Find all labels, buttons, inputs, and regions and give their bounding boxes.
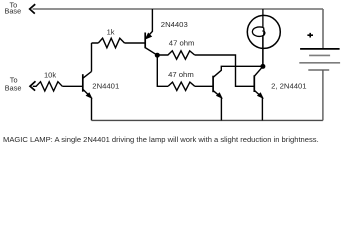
resistor R1 10k zigzag — [33, 82, 63, 91]
svg-text:1k: 1k — [107, 27, 115, 36]
svg-text:47 ohm: 47 ohm — [169, 39, 195, 48]
label To Base (top input) — [5, 1, 22, 16]
lamp DS1 bottom wire to node B — [262, 36, 264, 67]
svg-text:Base: Base — [5, 84, 22, 93]
lamp DS1 filament loop — [252, 27, 264, 36]
wire Q2 emitter to ground rail — [220, 97, 222, 120]
transistor Q1 2N4401 bar — [82, 74, 84, 92]
transistor Q2 collector wire up to node B — [213, 66, 263, 77]
wire R3 to Q3 base — [195, 55, 255, 86]
wire bottom rail — [92, 119, 323, 121]
node B junction dot — [260, 64, 265, 69]
transistor Q2 2N4401 bar — [212, 76, 214, 93]
svg-text:2N4401: 2N4401 — [92, 81, 119, 90]
transistor U1 2N4403 bar — [144, 33, 146, 49]
transistor U1 2N4403 emitter wire — [146, 9, 152, 38]
node A junction dot — [155, 53, 160, 58]
battery BT1 plate 3 (long) — [299, 62, 340, 64]
resistor R3 47 ohm upper zigzag — [157, 51, 194, 59]
lamp DS1 top wire — [263, 9, 264, 66]
transistor Q2 emitter diagonal with arrowhead — [213, 91, 221, 98]
battery BT1 plate 1 (long, positive) — [300, 48, 340, 50]
svg-text:2, 2N4401: 2, 2N4401 — [271, 81, 306, 90]
transistor Q3 emitter diagonal with arrowhead — [255, 91, 263, 98]
svg-text:2N4403: 2N4403 — [161, 20, 188, 29]
wire battery top vertical — [322, 9, 324, 49]
battery BT1 plus sign — [307, 33, 313, 38]
transistor U1 2N4403 emitter arrowhead — [146, 33, 152, 39]
wire Q3 emitter to ground rail — [261, 97, 263, 120]
resistor R4 47 ohm lower zigzag — [168, 82, 195, 90]
battery BT1 plate 2 (short) — [309, 54, 330, 56]
wire Q1 emitter to ground rail — [91, 98, 93, 121]
transistor U1 collector wire to node A — [145, 48, 157, 56]
arrow lower input — [30, 81, 36, 90]
svg-text:MAGIC LAMP: A single 2N4401 dr: MAGIC LAMP: A single 2N4401 driving the … — [3, 135, 319, 144]
wire left collector riser (1k down to Q1 collector) — [92, 43, 99, 72]
svg-text:10k: 10k — [44, 71, 56, 80]
svg-text:Base: Base — [5, 7, 22, 16]
arrow top input — [30, 4, 36, 13]
wire 1k to base of U1 — [125, 42, 146, 44]
battery BT1 plate 4 (short, negative) — [308, 69, 329, 71]
transistor Q1 2N4401 collector diagonal — [83, 72, 91, 79]
wire battery bottom vertical to ground rail — [322, 70, 324, 120]
lamp DS1 bulb circle — [247, 15, 280, 48]
wire top rail — [33, 8, 324, 10]
wire 10k to base of Q1 — [62, 85, 82, 87]
transistor Q3 collector diagonal from node B — [255, 66, 263, 76]
wire R4 to Q2 base — [195, 85, 213, 87]
svg-text:47 ohm: 47 ohm — [168, 70, 194, 79]
label To Base (lower input) — [5, 76, 22, 93]
transistor Q1 emitter diagonal with arrowhead — [83, 90, 91, 98]
transistor Q3 2N4401 bar — [253, 75, 255, 92]
node A down wire to second 47 ohm — [157, 55, 168, 86]
resistor R2 1k zigzag — [98, 38, 124, 48]
